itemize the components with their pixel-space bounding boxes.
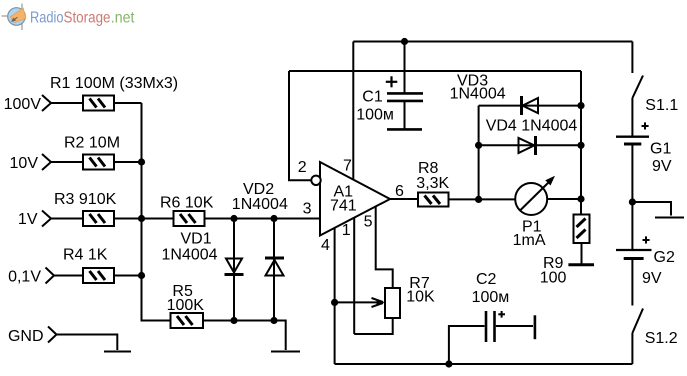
svg-text:C1: C1 <box>362 89 383 106</box>
svg-text:0,1V: 0,1V <box>8 269 41 286</box>
svg-text:G1: G1 <box>650 141 671 158</box>
svg-text:100м: 100м <box>356 107 394 124</box>
svg-text:1mA: 1mA <box>513 232 546 249</box>
svg-text:R4 1K: R4 1K <box>63 247 108 264</box>
svg-text:G2: G2 <box>654 249 675 266</box>
svg-text:10K: 10K <box>406 289 435 306</box>
svg-text:6: 6 <box>395 183 404 200</box>
svg-text:S1.2: S1.2 <box>645 330 678 347</box>
svg-text:Storage: Storage <box>64 10 111 27</box>
svg-text:9V: 9V <box>642 270 662 287</box>
svg-text:2: 2 <box>298 159 307 176</box>
svg-text:1N4004: 1N4004 <box>450 86 506 103</box>
svg-text:4: 4 <box>321 237 330 254</box>
svg-text:Radio: Radio <box>30 10 64 27</box>
svg-text:10V: 10V <box>10 155 39 172</box>
svg-text:100K: 100K <box>167 297 205 314</box>
svg-text:741: 741 <box>330 198 357 215</box>
svg-text:100V: 100V <box>4 96 42 113</box>
svg-text:1N4004: 1N4004 <box>232 196 288 213</box>
svg-text:100: 100 <box>540 270 567 287</box>
svg-text:R1 100M (33Mx3): R1 100M (33Mx3) <box>50 75 178 92</box>
svg-text:R6 10K: R6 10K <box>160 195 214 212</box>
svg-text:100м: 100м <box>472 289 510 306</box>
svg-text:R2 10M: R2 10M <box>64 135 120 152</box>
svg-text:.net: .net <box>111 10 135 27</box>
svg-text:GND: GND <box>8 328 44 345</box>
svg-text:5: 5 <box>364 214 373 231</box>
svg-text:7: 7 <box>343 158 352 175</box>
svg-text:3,3K: 3,3K <box>416 175 449 192</box>
svg-text:C2: C2 <box>476 271 497 288</box>
svg-text:9V: 9V <box>652 158 672 175</box>
svg-text:3: 3 <box>303 201 312 218</box>
svg-text:S1.1: S1.1 <box>645 97 678 114</box>
svg-text:1: 1 <box>342 222 351 239</box>
svg-text:VD4 1N4004: VD4 1N4004 <box>486 118 578 135</box>
svg-text:1V: 1V <box>18 211 38 228</box>
svg-text:R3 910K: R3 910K <box>54 191 117 208</box>
svg-text:1N4004: 1N4004 <box>162 247 218 264</box>
svg-text:VD1: VD1 <box>181 231 212 248</box>
